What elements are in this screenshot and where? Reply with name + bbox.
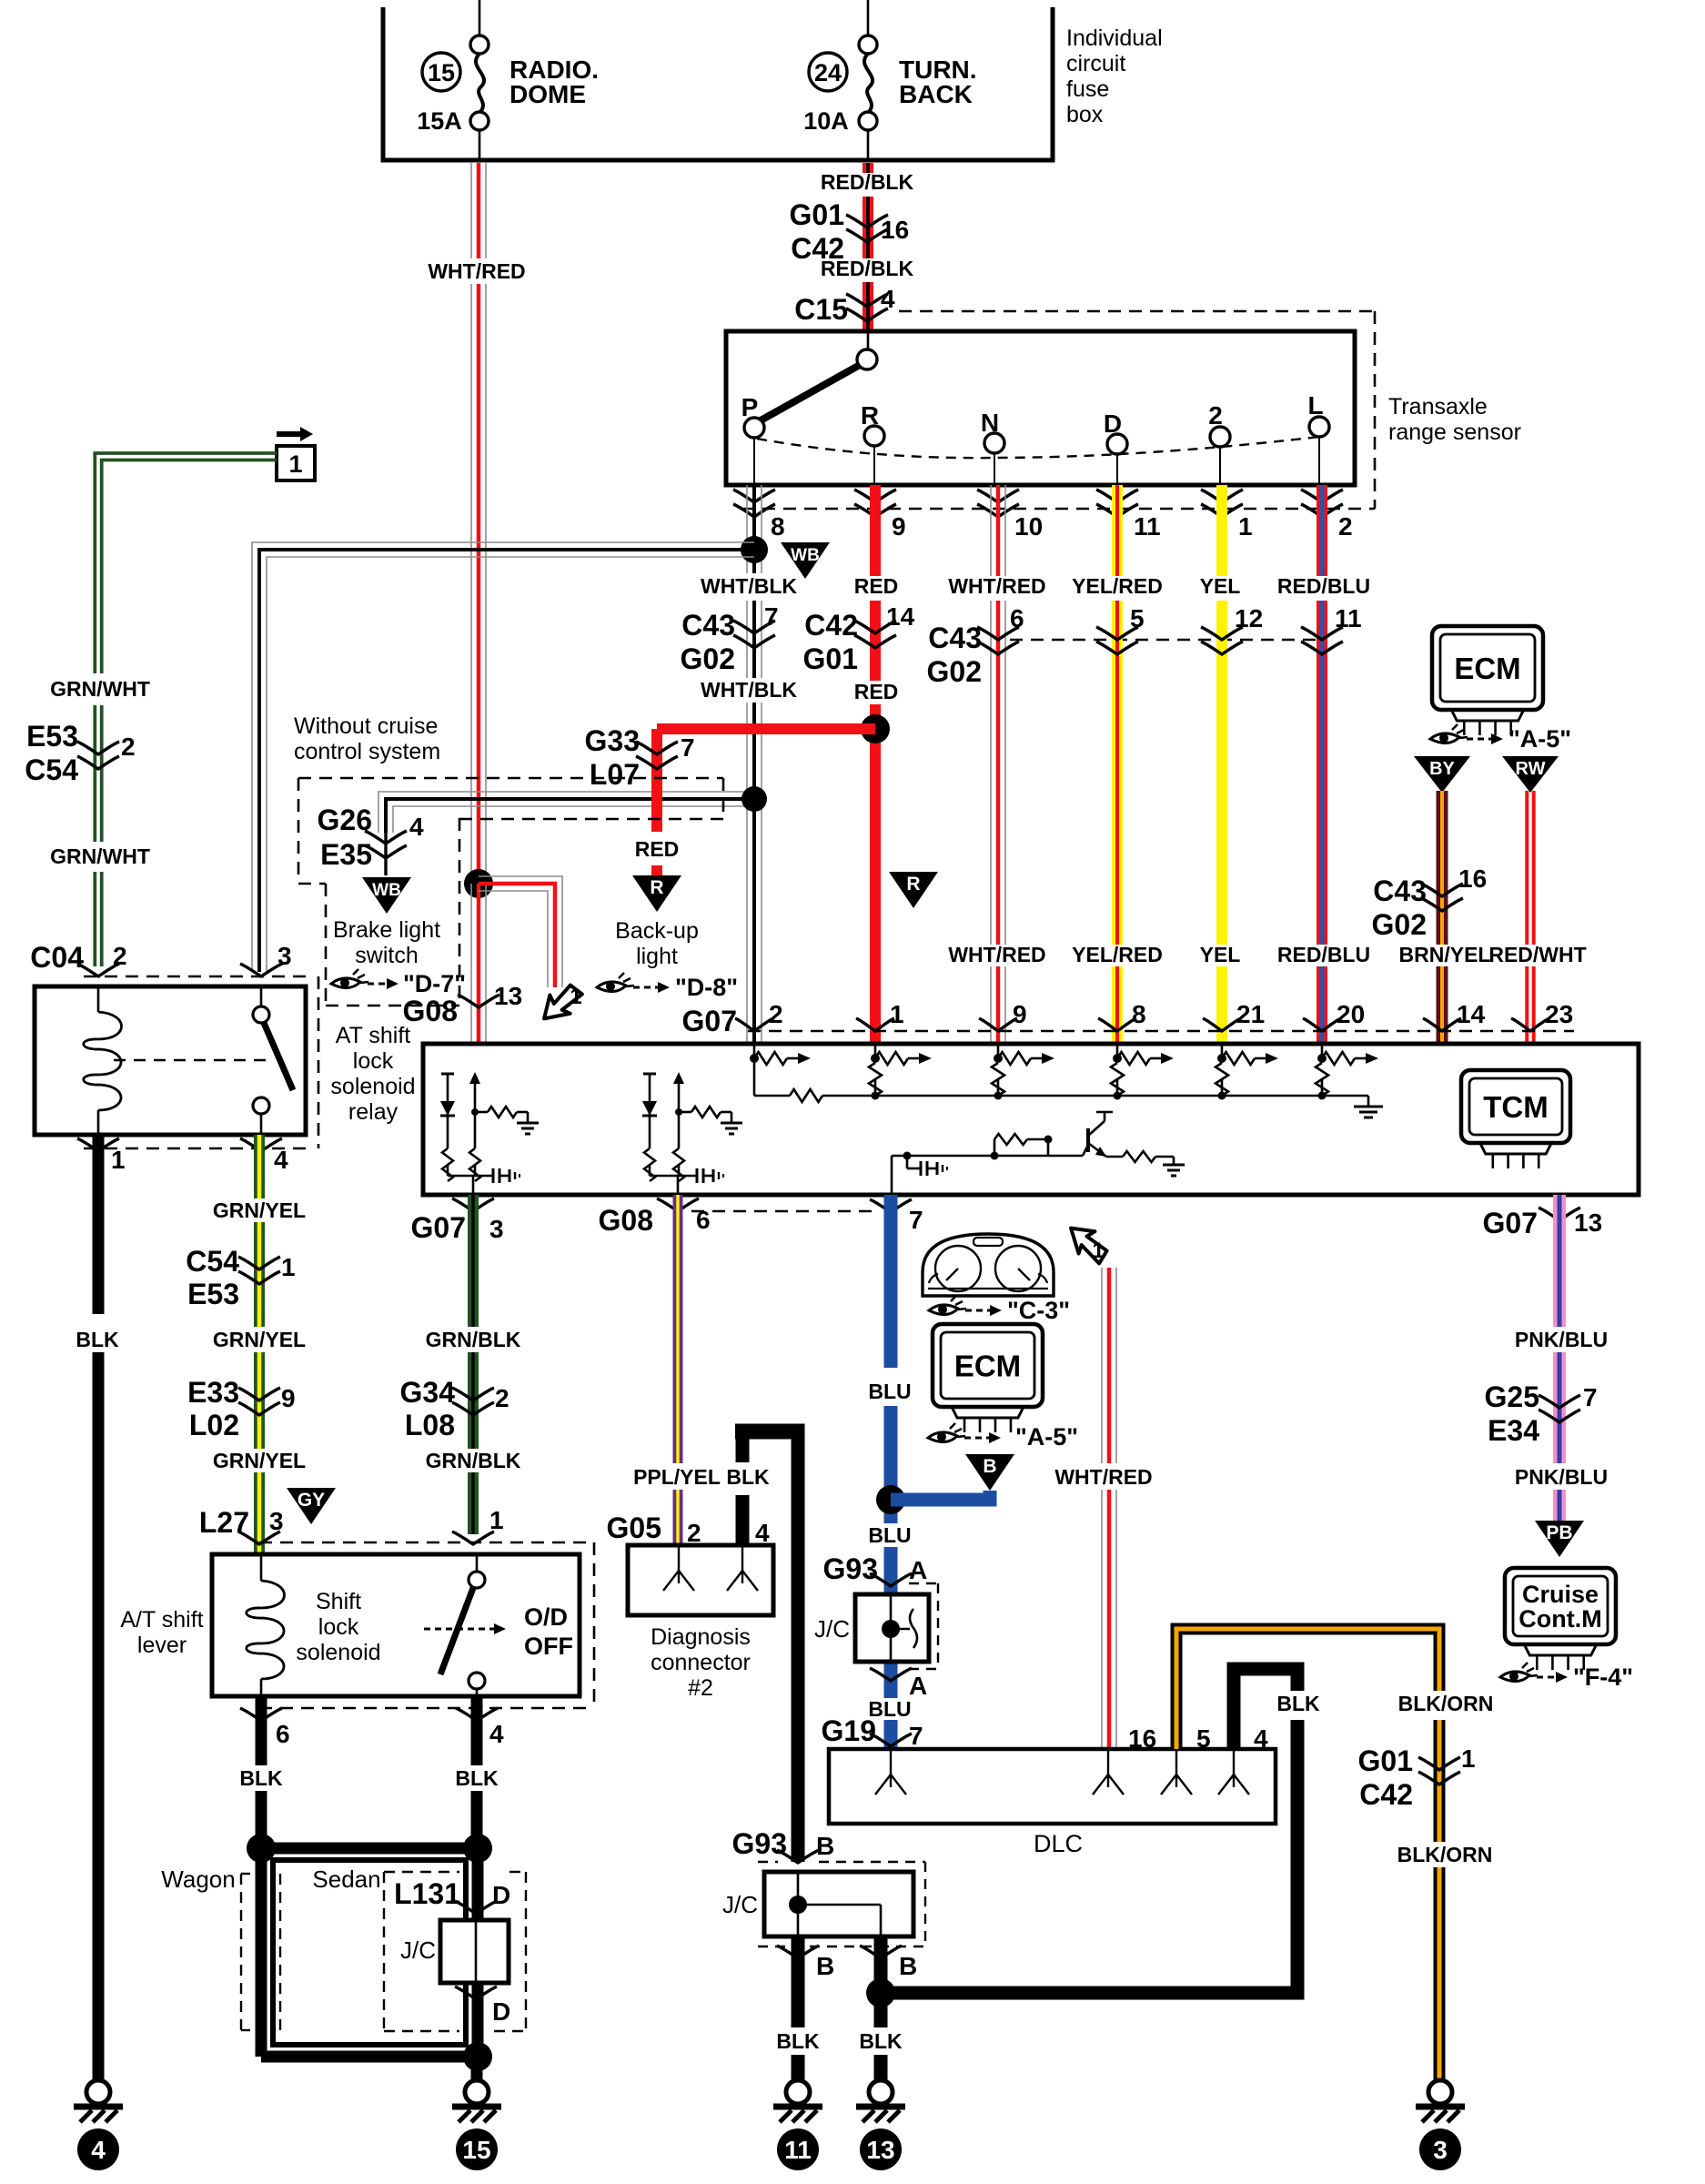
solenoid pin 1 entry bbox=[452, 1506, 504, 1544]
svg-text:Without cruise: Without cruise bbox=[294, 713, 438, 739]
label RED 3 bbox=[635, 837, 680, 861]
svg-text:L: L bbox=[1307, 391, 1323, 420]
svg-text:3: 3 bbox=[269, 1507, 284, 1535]
svg-text:G01: G01 bbox=[803, 642, 858, 675]
svg-text:G01: G01 bbox=[1358, 1744, 1413, 1777]
wire GRN/BLK TCM to solenoid pin1 bbox=[468, 1195, 479, 1534]
wire WHT/BLK branch to G26/E35 bbox=[378, 792, 754, 875]
selector gang dashed curve bbox=[757, 437, 1319, 458]
label BLK G05 bbox=[726, 1465, 770, 1489]
svg-text:2: 2 bbox=[687, 1519, 701, 1547]
svg-text:C54: C54 bbox=[186, 1245, 239, 1278]
svg-text:4: 4 bbox=[91, 2136, 106, 2164]
svg-text:G19: G19 bbox=[822, 1714, 876, 1747]
svg-text:WB: WB bbox=[372, 881, 401, 900]
wire GRN/WHT from box1 to relay pin2 bbox=[95, 453, 277, 966]
TCM pin 7 BLU entry bbox=[870, 1199, 923, 1234]
TCM pin 14 entry bbox=[1423, 1000, 1486, 1031]
svg-text:16: 16 bbox=[1458, 864, 1487, 893]
svg-text:4: 4 bbox=[489, 1720, 504, 1748]
TCM top dashed pin row bbox=[748, 1030, 1574, 1033]
label RED/WHT bbox=[1488, 943, 1586, 966]
svg-text:RED/BLU: RED/BLU bbox=[1277, 943, 1370, 966]
svg-text:14: 14 bbox=[886, 602, 915, 631]
svg-text:BLU: BLU bbox=[868, 1380, 911, 1403]
svg-text:N: N bbox=[981, 409, 999, 437]
ground 11 bbox=[786, 2080, 810, 2104]
svg-text:21: 21 bbox=[1236, 1000, 1265, 1028]
svg-text:RED/BLK: RED/BLK bbox=[821, 170, 914, 194]
svg-text:14: 14 bbox=[1457, 1000, 1486, 1028]
svg-text:BLK: BLK bbox=[776, 2029, 820, 2053]
label GRN/WHT bbox=[50, 677, 150, 701]
label YEL/RED low bbox=[1072, 943, 1163, 966]
svg-text:Brake light: Brake light bbox=[333, 917, 440, 943]
svg-text:RED: RED bbox=[635, 837, 680, 861]
label AT shift lock solenoid relay bbox=[330, 1023, 415, 1125]
svg-text:1: 1 bbox=[1461, 1744, 1476, 1773]
ground 15 bbox=[465, 2080, 489, 2104]
label GRN/BLK 2 bbox=[426, 1449, 521, 1472]
svg-text:B: B bbox=[816, 1952, 834, 1980]
svg-text:DOME: DOME bbox=[509, 80, 586, 108]
svg-text:10: 10 bbox=[1014, 512, 1043, 541]
svg-text:A: A bbox=[909, 1556, 927, 1584]
svg-text:C04: C04 bbox=[30, 941, 84, 974]
svg-text:R: R bbox=[861, 401, 879, 430]
triangle RW bbox=[1502, 756, 1559, 793]
svg-text:RW: RW bbox=[1516, 759, 1546, 779]
svg-text:O/D: O/D bbox=[524, 1603, 568, 1631]
label BLK ground13 bbox=[859, 2029, 903, 2053]
triangle WB at brake light switch bbox=[362, 877, 411, 914]
svg-text:GRN/WHT: GRN/WHT bbox=[50, 844, 150, 868]
connector row pin 12 bbox=[1201, 604, 1263, 654]
triangle R right of RED wire bbox=[889, 872, 938, 908]
label Transaxle range sensor bbox=[1388, 394, 1521, 445]
svg-text:Cruise: Cruise bbox=[1522, 1581, 1599, 1608]
connector C43/G02 pin 16 bbox=[1372, 864, 1488, 941]
svg-text:1: 1 bbox=[281, 1253, 296, 1281]
J/C G93-A junction connector bbox=[814, 1594, 929, 1662]
svg-text:8: 8 bbox=[1132, 1000, 1146, 1028]
svg-text:Sedan: Sedan bbox=[312, 1865, 380, 1893]
svg-text:3: 3 bbox=[1433, 2136, 1448, 2164]
O/D OFF dashed arrow bbox=[424, 1603, 573, 1660]
sensor contact L bbox=[1307, 391, 1329, 485]
triangle WB right of pin8 bbox=[781, 542, 830, 579]
label RED 2 bbox=[854, 680, 899, 703]
connector G26/E35 pin 4 bbox=[318, 804, 424, 871]
AT shift lock solenoid relay box bbox=[35, 986, 306, 1135]
connector G93 pin B bottom left bbox=[777, 1946, 834, 1980]
DLC pin 4 bbox=[1218, 1724, 1268, 1795]
connector G93 pin A top bbox=[823, 1552, 928, 1586]
svg-text:RED/BLK: RED/BLK bbox=[821, 257, 914, 280]
svg-text:OFF: OFF bbox=[524, 1633, 573, 1660]
svg-text:C43: C43 bbox=[928, 622, 982, 654]
wire WHT/RED sensor pin10 to TCM G07-9 bbox=[991, 485, 1005, 1042]
wire PNK/BLU TCM to PB bbox=[1553, 1195, 1566, 1521]
TCM input network pin x=1228 bbox=[1111, 1044, 1174, 1100]
svg-text:WHT/RED: WHT/RED bbox=[948, 943, 1045, 966]
eye reference F-4 bbox=[1500, 1663, 1633, 1691]
wire BRN/YEL to TCM G07-14 bbox=[1437, 791, 1448, 1042]
triangle R back-up light bbox=[632, 875, 681, 912]
svg-text:G26: G26 bbox=[318, 804, 372, 836]
svg-text:7: 7 bbox=[909, 1722, 923, 1750]
TCM pin 9 entry bbox=[979, 1000, 1027, 1031]
sensor pin 10 chevrons bbox=[977, 490, 1043, 541]
selector common wire and pivot bbox=[857, 331, 877, 369]
wire RED branch to G33/L07 back-up light bbox=[657, 729, 875, 875]
label PNK/BLU bbox=[1515, 1328, 1608, 1351]
svg-text:switch: switch bbox=[355, 943, 418, 968]
label RED/BLK bbox=[821, 170, 914, 194]
svg-text:D: D bbox=[1104, 409, 1122, 438]
J/C G93-B dashed box bbox=[819, 1861, 925, 1863]
svg-text:C15: C15 bbox=[794, 293, 848, 326]
svg-text:YEL: YEL bbox=[1200, 943, 1241, 966]
svg-text:A: A bbox=[909, 1672, 927, 1700]
svg-text:BLU: BLU bbox=[868, 1523, 911, 1547]
DLC pin G19-7 bbox=[875, 1749, 906, 1795]
TCM pin 23 entry bbox=[1511, 1000, 1573, 1031]
eye reference A-5 mid bbox=[928, 1423, 1078, 1451]
svg-text:WHT/BLK: WHT/BLK bbox=[701, 574, 797, 598]
TCM pin G08-6 bbox=[599, 1198, 711, 1237]
label PPL/YEL bbox=[633, 1465, 721, 1489]
svg-text:G02: G02 bbox=[1372, 908, 1427, 941]
TCM diode network for pin G07-3 bbox=[447, 1074, 449, 1148]
svg-text:G07: G07 bbox=[682, 1005, 737, 1037]
wire WHT/RED junction to TCM pin G08-13 bbox=[471, 884, 486, 1042]
svg-text:connector: connector bbox=[651, 1650, 751, 1675]
svg-text:C43: C43 bbox=[1373, 875, 1427, 907]
svg-text:9: 9 bbox=[281, 1384, 296, 1412]
connector G05 pins 2 and 4 bbox=[607, 1512, 770, 1547]
svg-text:1: 1 bbox=[288, 450, 302, 478]
svg-text:GRN/BLK: GRN/BLK bbox=[426, 1328, 521, 1351]
connector box 1 with arrow bbox=[277, 427, 315, 480]
label GRN/YEL 3 bbox=[213, 1449, 306, 1472]
label PNK/BLU 2 bbox=[1515, 1465, 1608, 1489]
connector C42/G01 pin 14 bbox=[803, 602, 915, 675]
sensor contact P bbox=[742, 393, 764, 485]
TCM transistor network bbox=[892, 1112, 1185, 1195]
label Sedan bbox=[312, 1865, 380, 1893]
dashed link C43 row bbox=[1010, 639, 1322, 642]
svg-text:1: 1 bbox=[1238, 512, 1253, 541]
svg-text:7: 7 bbox=[909, 1206, 923, 1234]
arrow flag 1 to back-up light bbox=[535, 978, 586, 1028]
svg-text:C42: C42 bbox=[1359, 1778, 1413, 1811]
svg-text:AT shift: AT shift bbox=[336, 1023, 410, 1048]
svg-text:G02: G02 bbox=[927, 655, 982, 688]
junction node on WHT/BLK at G33 row bbox=[742, 786, 767, 812]
svg-text:YEL: YEL bbox=[1200, 574, 1241, 598]
svg-text:1: 1 bbox=[111, 1146, 126, 1174]
svg-text:L02: L02 bbox=[189, 1409, 239, 1441]
wire PPL/YEL TCM to diagnosis connector bbox=[673, 1195, 683, 1545]
eye reference D-7 bbox=[331, 969, 466, 997]
svg-text:C54: C54 bbox=[25, 753, 78, 786]
wire BLK relay pin1 to ground 4 bbox=[93, 1135, 105, 2080]
svg-text:6: 6 bbox=[1010, 604, 1024, 632]
svg-text:3: 3 bbox=[489, 1215, 504, 1243]
wire WHT/BLK sensor pin8 to TCM G07-2 bbox=[747, 485, 762, 1042]
TCM module label box bbox=[1461, 1070, 1570, 1143]
solenoid dashed boundary bbox=[259, 1542, 594, 1544]
svg-text:PB: PB bbox=[1546, 1522, 1572, 1543]
relay pin 2 entry bbox=[77, 942, 127, 976]
svg-text:#2: #2 bbox=[688, 1675, 713, 1701]
connector G19 pin 7 bbox=[822, 1714, 923, 1750]
svg-text:R: R bbox=[906, 874, 920, 895]
connector G93 pin A bottom bbox=[870, 1668, 927, 1700]
svg-text:circuit: circuit bbox=[1066, 51, 1125, 76]
svg-text:7: 7 bbox=[764, 602, 779, 631]
svg-text:4: 4 bbox=[755, 1519, 770, 1547]
svg-text:D: D bbox=[492, 1997, 510, 2026]
label BLK ground11 bbox=[776, 2029, 820, 2053]
svg-text:RED/BLU: RED/BLU bbox=[1277, 574, 1370, 598]
svg-text:1: 1 bbox=[489, 1506, 504, 1534]
label WHT/RED pin10 bbox=[948, 574, 1045, 598]
TCM diode network for pin G08-6 bbox=[649, 1074, 651, 1148]
svg-text:Wagon: Wagon bbox=[161, 1865, 235, 1893]
svg-text:"D-8": "D-8" bbox=[675, 974, 738, 1001]
label BLU 3 bbox=[868, 1697, 911, 1721]
J/C L131 connector bbox=[400, 1920, 509, 1983]
svg-text:Diagnosis: Diagnosis bbox=[651, 1624, 751, 1650]
junction node RED G33 branch bbox=[861, 714, 890, 743]
svg-text:solenoid: solenoid bbox=[296, 1640, 380, 1665]
wagon dashed box bbox=[240, 1874, 242, 2030]
L131 pin D bottom bbox=[455, 1987, 510, 2026]
TCM input network pin x=1097 bbox=[992, 1044, 1054, 1100]
label Back-up light bbox=[615, 918, 699, 969]
solenoid coil bbox=[247, 1554, 285, 1696]
svg-text:"C-3": "C-3" bbox=[1007, 1297, 1070, 1324]
wire BLK sedan to ground15 bbox=[471, 2057, 483, 2080]
svg-text:23: 23 bbox=[1545, 1000, 1573, 1028]
wire BLK to ground 13 bbox=[874, 1936, 888, 2080]
wire WHT/BLK horizontal to relay pin3 bbox=[252, 542, 754, 972]
svg-text:J/C: J/C bbox=[814, 1615, 850, 1643]
label RED/BLU low bbox=[1277, 943, 1370, 966]
svg-text:2: 2 bbox=[1338, 512, 1353, 541]
svg-text:GRN/BLK: GRN/BLK bbox=[426, 1449, 521, 1472]
sensor contact N bbox=[981, 409, 1004, 485]
ground 13 bbox=[869, 2080, 893, 2104]
wire BLK DLC pin4 return bbox=[881, 1669, 1297, 1993]
svg-text:A/T shift: A/T shift bbox=[120, 1607, 203, 1633]
TCM box outline bbox=[423, 1044, 1639, 1195]
svg-text:1: 1 bbox=[1092, 1239, 1104, 1263]
svg-text:2: 2 bbox=[121, 733, 136, 761]
svg-text:"D-7": "D-7" bbox=[403, 970, 466, 997]
relay coil bbox=[84, 986, 122, 1135]
wire BLK solenoid pin4 down bbox=[471, 1696, 483, 1848]
svg-text:6: 6 bbox=[696, 1206, 711, 1234]
svg-text:BLK: BLK bbox=[455, 1766, 499, 1790]
label Diagnosis connector #2 bbox=[651, 1624, 751, 1701]
wire YEL sensor pin1 to TCM G07-21 bbox=[1216, 485, 1227, 1042]
solenoid pin 6 exit bbox=[240, 1708, 290, 1748]
wire RED sensor pin9 to TCM G07-1 bbox=[870, 485, 881, 1042]
wire YEL/RED sensor pin11 to TCM G07-8 bbox=[1112, 485, 1123, 1042]
label BLK pin4 bbox=[455, 1766, 499, 1790]
TCM pin G08-13 entry bbox=[403, 982, 523, 1027]
svg-text:B: B bbox=[983, 1456, 996, 1477]
connector C54/E53 pin 1 bbox=[186, 1245, 295, 1310]
svg-text:4: 4 bbox=[881, 285, 895, 313]
junction node DLC black return bbox=[866, 1978, 895, 2007]
label BLK/ORN upper bbox=[1398, 1692, 1494, 1715]
svg-text:10A: 10A bbox=[803, 107, 849, 135]
solenoid O/D switch bbox=[440, 1554, 485, 1696]
svg-text:16: 16 bbox=[1128, 1724, 1156, 1753]
wire BLK to ground 11 bbox=[792, 1936, 805, 2080]
wire BLK solenoid pin6 down bbox=[256, 1696, 267, 1848]
svg-text:15A: 15A bbox=[417, 107, 462, 135]
svg-text:solenoid: solenoid bbox=[330, 1074, 415, 1099]
connector C15 pin 4 bbox=[794, 285, 895, 326]
shift lock solenoid box bbox=[212, 1554, 580, 1696]
svg-text:YEL/RED: YEL/RED bbox=[1072, 943, 1163, 966]
label RED bbox=[854, 574, 899, 598]
label Shift lock solenoid bbox=[296, 1589, 380, 1665]
sensor pin 11 chevrons bbox=[1096, 490, 1161, 541]
svg-text:4: 4 bbox=[409, 813, 424, 841]
J/C G93 dashed box bbox=[909, 1582, 938, 1584]
svg-text:G05: G05 bbox=[607, 1512, 661, 1544]
wire BLK G05 pin4 elbow bbox=[735, 1431, 805, 1862]
svg-text:7: 7 bbox=[1583, 1383, 1598, 1411]
svg-text:DLC: DLC bbox=[1034, 1830, 1083, 1857]
connector G25/E34 pin 7 bbox=[1485, 1380, 1598, 1447]
svg-text:G08: G08 bbox=[599, 1204, 653, 1237]
svg-text:GRN/YEL: GRN/YEL bbox=[213, 1198, 306, 1222]
svg-text:2: 2 bbox=[495, 1384, 509, 1412]
svg-text:GRN/YEL: GRN/YEL bbox=[213, 1449, 306, 1472]
svg-text:C43: C43 bbox=[681, 609, 735, 642]
connector G93 pin B top bbox=[732, 1827, 835, 1863]
label YEL/RED pin11 bbox=[1072, 574, 1163, 598]
label WHT/RED pin10 low bbox=[948, 943, 1045, 966]
connector G01/C42 pin 1 bbox=[1358, 1744, 1476, 1811]
svg-text:PPL/YEL: PPL/YEL bbox=[633, 1465, 721, 1489]
TCM pin G07-3 bbox=[411, 1198, 504, 1244]
svg-text:ECM: ECM bbox=[954, 1349, 1021, 1382]
label YEL pin1 bbox=[1200, 574, 1241, 598]
sensor pin 1 chevrons bbox=[1201, 490, 1253, 541]
svg-text:2: 2 bbox=[769, 1000, 783, 1028]
svg-text:L08: L08 bbox=[405, 1409, 455, 1441]
svg-text:1: 1 bbox=[570, 985, 581, 1009]
label Wagon bbox=[161, 1865, 235, 1893]
label A/T shift lever bbox=[120, 1607, 203, 1658]
svg-text:WHT/RED: WHT/RED bbox=[428, 259, 525, 283]
label BRN/YEL bbox=[1399, 943, 1491, 966]
svg-text:R: R bbox=[650, 877, 663, 898]
eye reference D-8 bbox=[597, 973, 738, 1001]
sensor contact R bbox=[861, 401, 884, 485]
label BLK/ORN lower bbox=[1397, 1843, 1493, 1866]
TCM internal rail bbox=[754, 1089, 1383, 1117]
connector C43/G02 pin 6 bbox=[927, 604, 1024, 688]
triangle GY bbox=[287, 1488, 336, 1524]
svg-text:2: 2 bbox=[113, 942, 127, 970]
svg-text:13: 13 bbox=[1574, 1208, 1602, 1237]
svg-text:PNK/BLU: PNK/BLU bbox=[1515, 1465, 1608, 1489]
svg-text:3: 3 bbox=[277, 942, 292, 970]
svg-text:13: 13 bbox=[866, 2136, 894, 2164]
svg-text:L131: L131 bbox=[394, 1877, 460, 1910]
svg-text:9: 9 bbox=[892, 512, 906, 541]
svg-text:E35: E35 bbox=[320, 838, 372, 871]
svg-text:16: 16 bbox=[881, 216, 909, 244]
svg-text:12: 12 bbox=[1235, 604, 1263, 632]
svg-text:11: 11 bbox=[1335, 604, 1362, 632]
wire WHT/RED from fuse 15 down to junction bbox=[471, 163, 486, 884]
svg-text:BLK: BLK bbox=[239, 1766, 283, 1790]
svg-text:G08: G08 bbox=[403, 995, 458, 1027]
label G07 TCM top bbox=[682, 1005, 737, 1037]
DLC box bbox=[829, 1749, 1276, 1857]
label BLK bbox=[76, 1328, 119, 1351]
connector G01/C42 pin 16 bbox=[790, 198, 910, 265]
svg-text:8: 8 bbox=[771, 512, 785, 541]
label BLU bbox=[868, 1380, 911, 1403]
svg-text:GRN/WHT: GRN/WHT bbox=[50, 677, 150, 701]
fuse 24 TURN.BACK 10A bbox=[803, 0, 976, 160]
triangle B to instrument bbox=[965, 1454, 1014, 1491]
triangle BY bbox=[1414, 756, 1470, 793]
TCM pin 1 entry bbox=[856, 1000, 904, 1031]
transaxle range sensor box bbox=[726, 331, 1355, 485]
selector blade bbox=[761, 365, 860, 420]
svg-text:BLK: BLK bbox=[1276, 1692, 1320, 1715]
svg-text:control system: control system bbox=[294, 739, 440, 764]
svg-text:BACK: BACK bbox=[899, 80, 973, 108]
svg-text:G07: G07 bbox=[411, 1211, 466, 1244]
svg-text:Individual: Individual bbox=[1066, 25, 1163, 51]
relay switch bbox=[253, 986, 293, 1135]
triangle PB bbox=[1535, 1521, 1584, 1557]
svg-text:15: 15 bbox=[428, 59, 455, 86]
wire GRN/YEL relay pin4 to solenoid bbox=[254, 1135, 265, 1554]
TCM input network pin x=962 bbox=[869, 1044, 932, 1100]
label L131 bbox=[394, 1877, 460, 1910]
label WHT/RED bbox=[428, 259, 525, 283]
relay mech dashed link bbox=[114, 1059, 271, 1062]
relay pin 1 exit bbox=[77, 1138, 126, 1174]
svg-text:G07: G07 bbox=[1483, 1207, 1538, 1239]
diagnosis connector box bbox=[628, 1545, 773, 1615]
wire WHT/RED branch to back-up light arrow 1 bbox=[479, 876, 562, 987]
Cruise Cont.M module bbox=[1505, 1568, 1616, 1644]
svg-text:"A-5": "A-5" bbox=[1508, 725, 1571, 753]
connector row pin 5 bbox=[1096, 604, 1145, 654]
connector row pin 11 bbox=[1301, 604, 1362, 654]
junction nodes wagon/sedan top bbox=[247, 1834, 492, 1863]
transaxle range sensor dashed boundary bbox=[899, 310, 1375, 313]
svg-text:1: 1 bbox=[890, 1000, 904, 1028]
svg-text:Shift: Shift bbox=[316, 1589, 361, 1614]
label YEL low bbox=[1200, 943, 1241, 966]
